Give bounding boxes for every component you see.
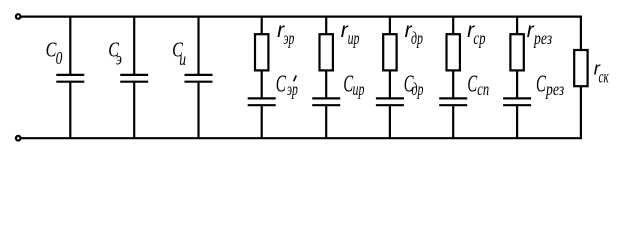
svg-text:рез: рез [533,29,552,48]
svg-text:э: э [116,48,122,69]
svg-text:ср: ср [473,29,485,49]
wire top of branch sk [580,17,582,50]
capacitor C_er [248,98,276,138]
resistor r_dr [383,34,396,70]
svg-text:и: и [179,50,186,69]
wire middle of branch sr [452,70,454,97]
svg-text:ир: ир [348,29,360,49]
terminal input bottom [16,136,21,141]
wire bottom of branch sk [580,86,582,138]
wire middle of branch ir [325,70,327,97]
capacitor C_dr [376,98,404,138]
wire middle of branch er [261,70,263,97]
wire top of branch sr [452,17,454,35]
svg-text:C: C [536,71,546,98]
capacitor C0 [56,17,84,139]
terminal input top [16,14,21,19]
wire top of branch ir [325,17,327,35]
capacitor C_sr [439,98,467,138]
resistor r_rez [510,34,523,70]
capacitor C_ir [312,98,340,138]
svg-text:др: др [412,80,424,100]
wire top of branch rez [516,17,518,35]
resistor r_er [255,34,268,70]
svg-text:0: 0 [56,49,63,68]
svg-text:ир: ир [353,80,365,100]
capacitor C_rez [503,98,531,138]
resistor r_sk [574,50,587,86]
svg-text:рез: рез [545,81,564,100]
svg-text:эр: эр [287,79,298,99]
svg-text:C: C [467,71,477,98]
svg-text:C: C [276,71,286,97]
wire middle of branch rez [516,70,518,97]
wire bottom rail [21,137,582,139]
svg-text:сп: сп [477,80,489,100]
svg-text:др: др [411,29,423,49]
capacitor Ce [120,17,148,139]
wire top of branch er [261,17,263,35]
wire top of branch dr [389,17,391,35]
wire top rail [21,16,582,18]
resistor r_sr [447,34,460,70]
wire middle of branch dr [389,70,391,97]
resistor r_ir [320,34,333,70]
svg-text:ск: ск [599,68,610,87]
capacitor Cu [185,17,213,139]
svg-text:эр: эр [283,29,294,49]
